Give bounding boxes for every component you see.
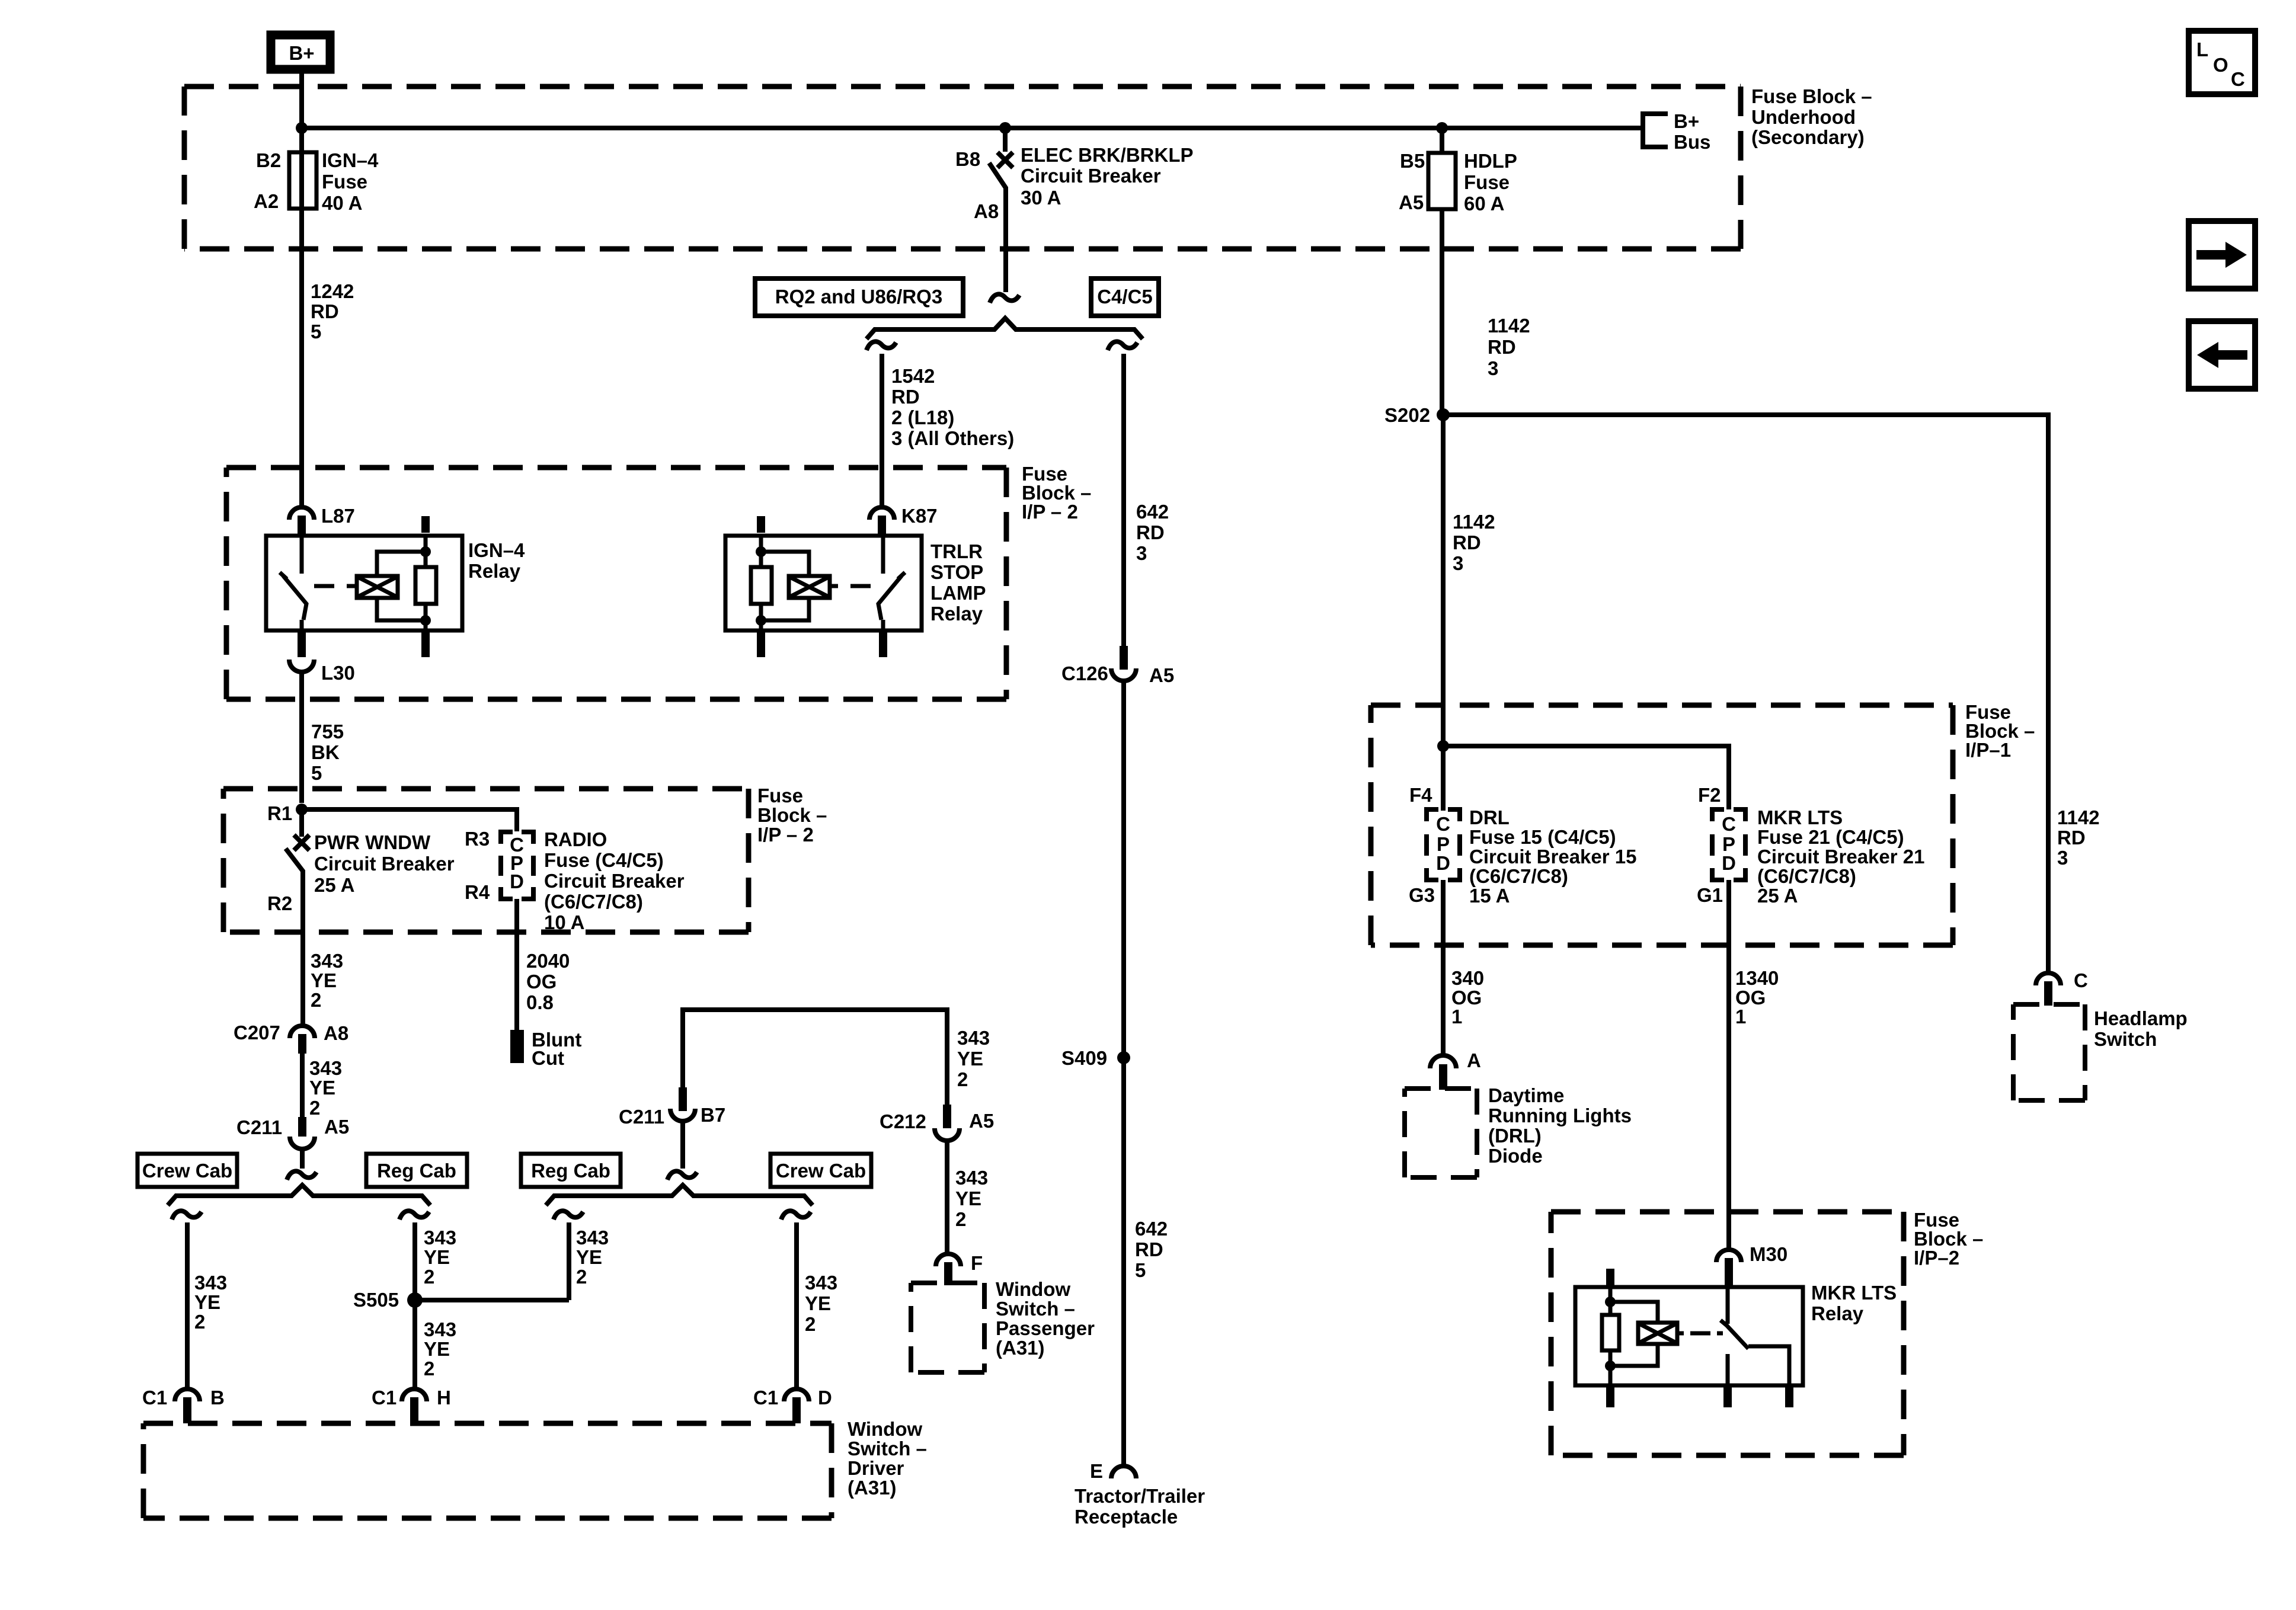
svg-text:(A31): (A31) [848,1477,897,1499]
svg-text:Reg Cab: Reg Cab [377,1160,456,1182]
svg-text:I/P – 2: I/P – 2 [757,824,814,846]
svg-text:343: 343 [424,1318,456,1340]
svg-text:343: 343 [576,1227,609,1249]
svg-text:2: 2 [955,1208,966,1230]
svg-text:1142: 1142 [1488,315,1530,337]
svg-text:Circuit Breaker 15: Circuit Breaker 15 [1469,846,1636,868]
svg-text:30 A: 30 A [1021,187,1061,209]
svg-text:E: E [1090,1460,1103,1482]
svg-text:Switch –: Switch – [848,1438,927,1459]
svg-text:D: D [818,1387,832,1409]
svg-text:Circuit Breaker: Circuit Breaker [544,870,685,892]
svg-text:L30: L30 [321,662,355,684]
svg-text:YE: YE [955,1188,981,1209]
svg-text:C: C [1436,813,1450,835]
svg-text:Fuse: Fuse [322,171,367,193]
svg-text:G1: G1 [1697,884,1723,906]
svg-text:3: 3 [1136,542,1147,564]
svg-text:A8: A8 [324,1022,348,1044]
svg-text:F4: F4 [1409,784,1432,806]
svg-text:A5: A5 [1149,664,1174,686]
svg-text:Switch –: Switch – [996,1298,1075,1320]
svg-text:343: 343 [957,1027,990,1049]
svg-text:1: 1 [1735,1006,1746,1028]
svg-text:Relay: Relay [468,560,521,582]
svg-text:A2: A2 [254,190,279,212]
svg-text:Cut: Cut [532,1047,564,1069]
svg-text:(C6/C7/C8): (C6/C7/C8) [1757,865,1856,887]
svg-text:Bus: Bus [1674,131,1710,153]
svg-text:Fuse (C4/C5): Fuse (C4/C5) [544,849,664,871]
svg-text:F: F [971,1252,983,1274]
svg-text:M30: M30 [1750,1243,1787,1265]
svg-text:Circuit Breaker: Circuit Breaker [1021,165,1161,187]
svg-text:1142: 1142 [1453,511,1495,533]
svg-text:2: 2 [805,1313,816,1335]
svg-text:3 (All Others): 3 (All Others) [891,427,1014,449]
svg-text:1: 1 [1451,1006,1462,1028]
svg-text:2: 2 [309,1097,320,1119]
svg-text:1142: 1142 [2057,806,2100,828]
svg-text:YE: YE [309,1077,335,1099]
svg-text:Window: Window [996,1278,1070,1300]
svg-text:642: 642 [1135,1218,1168,1240]
svg-text:RD: RD [891,386,920,408]
svg-text:YE: YE [311,969,337,991]
svg-text:MKR LTS: MKR LTS [1811,1282,1897,1304]
svg-text:L: L [2196,39,2208,60]
svg-text:RQ2 and U86/RQ3: RQ2 and U86/RQ3 [775,286,942,308]
svg-text:Fuse Block –: Fuse Block – [1751,85,1872,107]
svg-text:C126: C126 [1061,662,1108,684]
svg-text:Crew Cab: Crew Cab [776,1160,866,1182]
svg-text:(DRL): (DRL) [1488,1125,1542,1147]
svg-text:(C6/C7/C8): (C6/C7/C8) [1469,865,1568,887]
svg-text:B2: B2 [256,149,281,171]
svg-text:Underhood: Underhood [1751,106,1856,128]
svg-text:YE: YE [805,1292,831,1314]
svg-text:343: 343 [194,1272,227,1294]
svg-text:H: H [437,1387,451,1409]
svg-text:Switch: Switch [2094,1028,2157,1050]
svg-text:RD: RD [2057,827,2086,849]
svg-text:(Secondary): (Secondary) [1751,126,1865,148]
svg-text:Daytime: Daytime [1488,1084,1564,1106]
svg-text:RD: RD [1488,336,1516,358]
svg-text:B7: B7 [701,1104,725,1126]
svg-text:(A31): (A31) [996,1337,1045,1359]
svg-text:PWR WNDW: PWR WNDW [314,831,431,853]
svg-text:15 A: 15 A [1469,885,1510,907]
svg-text:2 (L18): 2 (L18) [891,406,954,428]
svg-text:R1: R1 [267,802,292,824]
svg-text:755: 755 [311,721,344,742]
svg-text:HDLP: HDLP [1464,150,1517,172]
svg-text:343: 343 [955,1167,988,1189]
svg-text:LAMP: LAMP [930,582,986,604]
svg-text:K87: K87 [901,505,938,527]
svg-text:A5: A5 [324,1116,349,1138]
svg-text:B+: B+ [1674,110,1699,132]
svg-text:(C6/C7/C8): (C6/C7/C8) [544,891,643,913]
svg-text:Relay: Relay [930,603,983,625]
svg-text:G3: G3 [1409,884,1435,906]
svg-text:A: A [1467,1049,1481,1071]
svg-text:3: 3 [1488,357,1498,379]
svg-text:IGN–4: IGN–4 [468,539,525,561]
svg-text:1542: 1542 [891,365,935,387]
svg-text:I/P – 2: I/P – 2 [1022,501,1078,523]
svg-text:S505: S505 [353,1289,399,1311]
svg-text:25 A: 25 A [1757,885,1798,907]
svg-text:DRL: DRL [1469,806,1510,828]
svg-text:Tractor/Trailer: Tractor/Trailer [1075,1485,1205,1507]
svg-text:Circuit Breaker: Circuit Breaker [314,853,455,875]
svg-text:S202: S202 [1384,404,1430,426]
svg-text:R2: R2 [267,892,292,914]
svg-text:YE: YE [194,1291,220,1313]
svg-text:Relay: Relay [1811,1302,1864,1324]
svg-text:D: D [1722,852,1736,874]
svg-text:2: 2 [194,1311,205,1333]
svg-text:F2: F2 [1698,784,1721,806]
svg-text:C211: C211 [236,1116,282,1138]
svg-text:Passenger: Passenger [996,1317,1095,1339]
svg-text:Fuse 21 (C4/C5): Fuse 21 (C4/C5) [1757,826,1904,848]
svg-text:B8: B8 [955,148,980,170]
svg-text:343: 343 [805,1272,837,1294]
svg-text:I/P–2: I/P–2 [1914,1247,1959,1269]
svg-text:D: D [1436,852,1450,874]
svg-text:L87: L87 [321,505,355,527]
svg-text:Receptacle: Receptacle [1075,1506,1178,1528]
svg-text:BK: BK [311,741,340,763]
svg-text:5: 5 [311,321,321,343]
svg-text:RD: RD [311,300,339,322]
svg-text:2: 2 [311,989,321,1011]
svg-text:TRLR: TRLR [930,540,983,562]
svg-text:R3: R3 [465,828,490,850]
svg-text:RD: RD [1136,521,1165,543]
svg-text:YE: YE [957,1048,983,1070]
svg-text:C1: C1 [753,1387,778,1409]
svg-text:A5: A5 [969,1110,994,1132]
svg-text:642: 642 [1136,501,1169,523]
svg-text:C211: C211 [619,1106,664,1128]
svg-text:Circuit Breaker 21: Circuit Breaker 21 [1757,846,1924,868]
svg-text:Block –: Block – [757,804,827,826]
svg-text:C1: C1 [372,1387,396,1409]
svg-text:Window: Window [848,1418,922,1440]
svg-text:B+: B+ [289,42,314,64]
svg-text:10 A: 10 A [544,911,584,933]
svg-text:2: 2 [424,1358,434,1379]
svg-text:5: 5 [1135,1259,1146,1281]
svg-text:B5: B5 [1400,150,1425,172]
svg-text:5: 5 [311,762,322,784]
svg-text:O: O [2213,54,2228,76]
svg-text:C: C [2231,68,2245,90]
svg-text:2: 2 [576,1266,587,1288]
svg-text:ELEC BRK/BRKLP: ELEC BRK/BRKLP [1021,144,1194,166]
svg-text:RD: RD [1453,532,1481,553]
svg-text:Headlamp: Headlamp [2094,1007,2188,1029]
svg-text:0.8: 0.8 [526,991,554,1013]
svg-text:40 A: 40 A [322,192,362,214]
svg-text:R4: R4 [465,881,490,903]
svg-text:YE: YE [576,1246,602,1268]
svg-text:C4/C5: C4/C5 [1097,286,1153,308]
svg-text:IGN–4: IGN–4 [322,149,379,171]
svg-text:3: 3 [1453,552,1463,574]
svg-text:I/P–1: I/P–1 [1965,739,2011,761]
svg-text:2040: 2040 [526,950,570,972]
svg-text:343: 343 [424,1227,456,1249]
svg-text:3: 3 [2057,847,2068,869]
svg-text:C207: C207 [234,1022,280,1044]
svg-text:343: 343 [311,950,343,972]
svg-text:Fuse: Fuse [757,785,803,806]
svg-text:Running Lights: Running Lights [1488,1105,1632,1126]
svg-text:Crew Cab: Crew Cab [142,1160,232,1182]
svg-text:S409: S409 [1061,1047,1107,1069]
svg-text:C: C [1722,813,1736,835]
svg-text:60 A: 60 A [1464,193,1504,215]
svg-text:C: C [2074,969,2088,991]
svg-text:OG: OG [526,971,557,993]
svg-text:D: D [510,870,524,892]
svg-text:YE: YE [424,1246,450,1268]
svg-text:343: 343 [309,1057,342,1079]
svg-text:B: B [210,1387,225,1409]
svg-text:Fuse 15 (C4/C5): Fuse 15 (C4/C5) [1469,826,1616,848]
svg-text:Fuse: Fuse [1464,171,1510,193]
svg-text:RD: RD [1135,1238,1163,1260]
svg-text:1340: 1340 [1735,967,1779,989]
svg-text:2: 2 [424,1266,434,1288]
svg-text:1242: 1242 [311,280,354,302]
svg-text:A8: A8 [974,200,999,222]
svg-text:Driver: Driver [848,1457,904,1479]
svg-text:25 A: 25 A [314,874,354,896]
svg-text:C1: C1 [142,1387,167,1409]
svg-text:STOP: STOP [930,561,983,583]
svg-text:340: 340 [1451,967,1484,989]
svg-text:2: 2 [957,1068,968,1090]
svg-text:Diode: Diode [1488,1145,1543,1167]
svg-text:C212: C212 [880,1110,926,1132]
svg-text:YE: YE [424,1338,450,1360]
svg-text:Reg Cab: Reg Cab [531,1160,610,1182]
svg-text:A5: A5 [1399,191,1424,213]
svg-text:MKR LTS: MKR LTS [1757,806,1843,828]
svg-text:RADIO: RADIO [544,828,607,850]
